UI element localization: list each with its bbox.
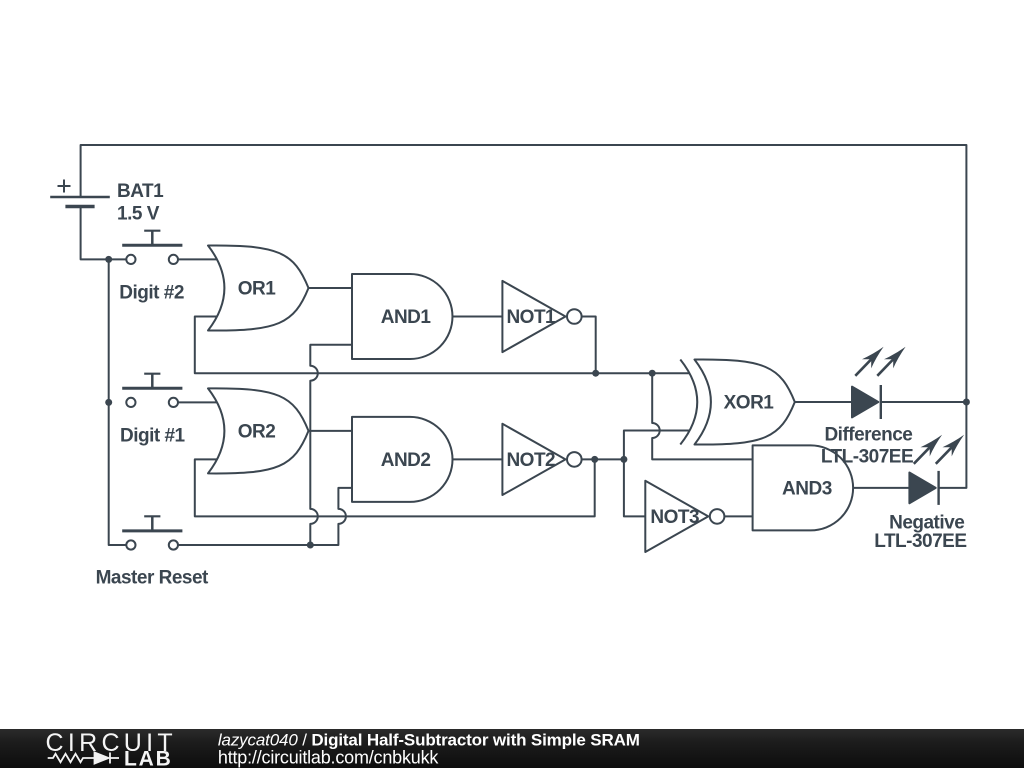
- wire OR1 output to AND1 input A: [309, 287, 353, 289]
- wire left supply column to all three switches: [109, 259, 127, 545]
- wire OR2 output to AND2 input A: [309, 430, 353, 432]
- svg-text:AND1: AND1: [381, 307, 432, 328]
- junction node Difference LED to right rail: [963, 399, 970, 406]
- LED Difference arrow 1: [855, 347, 883, 376]
- wire AND2 output to NOT2 input: [453, 458, 503, 460]
- wire NOT1 output down to net Q1: [582, 317, 596, 374]
- wire NOT3 output to AND3 input B: [724, 515, 752, 517]
- pushbutton switch Master Reset: [122, 516, 182, 549]
- wire NOT2 node up to XOR1 input B and down to NOT3 input: [624, 431, 690, 517]
- svg-text:LTL-307EE: LTL-307EE: [874, 531, 966, 552]
- NOT gate NOT3 triangle and bubble: [645, 481, 724, 552]
- NOT gate NOT1 triangle and bubble: [502, 281, 581, 352]
- junction node OR2 feedback on NOT2 output: [591, 456, 598, 463]
- LED Negative arrow 1: [914, 435, 942, 464]
- svg-text:AND3: AND3: [782, 478, 832, 499]
- AND gate AND3: [753, 445, 854, 530]
- svg-text:BAT1: BAT1: [117, 181, 164, 202]
- wire net Q2 feedback: OR2 input B down, right, up to NOT2 output node: [195, 459, 595, 516]
- svg-text:Master Reset: Master Reset: [96, 567, 209, 588]
- svg-text:NOT1: NOT1: [506, 307, 556, 328]
- junction node Master Reset / OR2 column: [307, 542, 314, 549]
- wire XOR1 output to Difference LED anode: [795, 401, 852, 403]
- junction node net Q1 branch to AND3: [649, 370, 656, 377]
- svg-text:LAB: LAB: [124, 748, 173, 768]
- wire Master Reset row right, up with hop, to AND2 input B: [178, 488, 352, 545]
- pushbutton switch Digit #2: [122, 231, 182, 264]
- junction node Digit #1: [105, 399, 112, 406]
- wire Digit #2 switch to OR1 input A: [178, 258, 219, 260]
- LED Negative arrow 2: [936, 435, 964, 464]
- svg-text:AND2: AND2: [381, 450, 431, 471]
- junction node NOT1 output on net Q1: [592, 370, 599, 377]
- LED Difference diode symbol: [852, 385, 881, 419]
- AND gate AND1: [352, 274, 452, 359]
- wire AND3 output to Negative LED anode: [853, 487, 909, 489]
- svg-text:LTL-307EE: LTL-307EE: [821, 446, 913, 467]
- wire Digit #1 switch to OR2 input A: [178, 401, 219, 403]
- svg-text:XOR1: XOR1: [724, 393, 775, 414]
- wire OR2 output up to AND1 input B with hops, down to Master Reset net: [310, 345, 352, 545]
- svg-text:Digit #1: Digit #1: [120, 426, 186, 447]
- svg-text:Difference: Difference: [824, 424, 912, 445]
- LED Difference arrow 2: [877, 347, 905, 376]
- LED Negative diode symbol: [909, 471, 938, 505]
- battery BAT1 plus sign: [58, 180, 71, 193]
- svg-text:NOT2: NOT2: [506, 450, 555, 471]
- wire battery bottom to Digit #2 node: [81, 207, 127, 260]
- pushbutton switch Digit #1: [122, 374, 182, 407]
- AND gate AND2: [352, 417, 453, 502]
- wire AND1 output to NOT1 input: [453, 316, 503, 318]
- svg-text:NOT3: NOT3: [650, 507, 699, 528]
- battery BAT1 short negative plate: [65, 205, 94, 208]
- svg-text:Digit #2: Digit #2: [119, 283, 184, 304]
- wire Difference LED cathode to right rail: [881, 401, 967, 403]
- battery BAT1 long positive plate: [50, 196, 110, 198]
- XOR gate XOR1 body: [695, 359, 795, 444]
- wire net Q1 branch down with hop to AND3 input A: [652, 373, 752, 459]
- junction node NOT2 output branch: [620, 456, 627, 463]
- footer bar: [0, 729, 1024, 768]
- CircuitLab logo resistor-diode squiggle: [48, 753, 119, 764]
- wire net Q1 feedback: OR1 input B down and right to XOR1 input A: [195, 317, 690, 374]
- svg-text:http://circuitlab.com/cnbkukk: http://circuitlab.com/cnbkukk: [218, 748, 439, 768]
- OR gate OR2: [208, 388, 309, 473]
- wire NOT2 output to branch node: [582, 458, 624, 460]
- wire top rail from battery + to right rail down to Negative LED: [81, 145, 967, 488]
- junction node Digit #2: [105, 256, 112, 263]
- svg-text:OR2: OR2: [238, 421, 276, 442]
- svg-text:1.5 V: 1.5 V: [117, 204, 160, 225]
- OR gate OR1: [208, 245, 309, 330]
- svg-text:OR1: OR1: [238, 279, 277, 300]
- XOR gate XOR1 outer input arc: [680, 360, 697, 445]
- NOT gate NOT2 triangle and bubble: [502, 424, 581, 495]
